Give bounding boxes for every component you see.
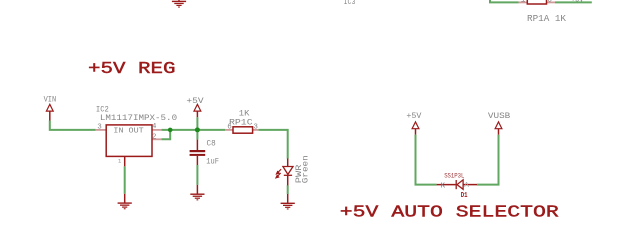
svg-text:6: 6: [227, 124, 232, 132]
svg-text:VIN: VIN: [44, 94, 57, 104]
svg-text:K: K: [441, 182, 446, 190]
svg-text:A: A: [464, 182, 469, 190]
svg-text:1: 1: [521, 0, 526, 4]
svg-text:LM1117IMPX-5.0: LM1117IMPX-5.0: [100, 113, 177, 123]
svg-text:2: 2: [152, 133, 157, 141]
svg-text:C8: C8: [207, 138, 216, 148]
svg-text:+5V REG: +5V REG: [88, 60, 176, 79]
svg-text:D1: D1: [461, 192, 468, 200]
svg-text:VUSB: VUSB: [488, 111, 510, 121]
svg-text:IC3: IC3: [344, 0, 356, 7]
svg-text:Green: Green: [301, 155, 311, 183]
svg-text:+5V: +5V: [571, 0, 584, 5]
svg-text:SS1P3L: SS1P3L: [444, 172, 464, 179]
svg-text:+5V: +5V: [406, 111, 422, 121]
svg-text:1: 1: [118, 158, 122, 165]
svg-text:IN OUT: IN OUT: [113, 127, 144, 135]
svg-text:+5V AUTO SELECTOR: +5V AUTO SELECTOR: [340, 204, 559, 223]
svg-text:RP1A 1K: RP1A 1K: [527, 13, 566, 24]
svg-text:4: 4: [152, 123, 157, 131]
svg-text:+5V: +5V: [186, 96, 204, 106]
svg-text:3: 3: [253, 124, 258, 132]
svg-text:RP1C: RP1C: [229, 118, 253, 128]
svg-text:3: 3: [97, 124, 102, 132]
svg-text:8: 8: [547, 0, 552, 4]
svg-text:1uF: 1uF: [206, 157, 219, 167]
